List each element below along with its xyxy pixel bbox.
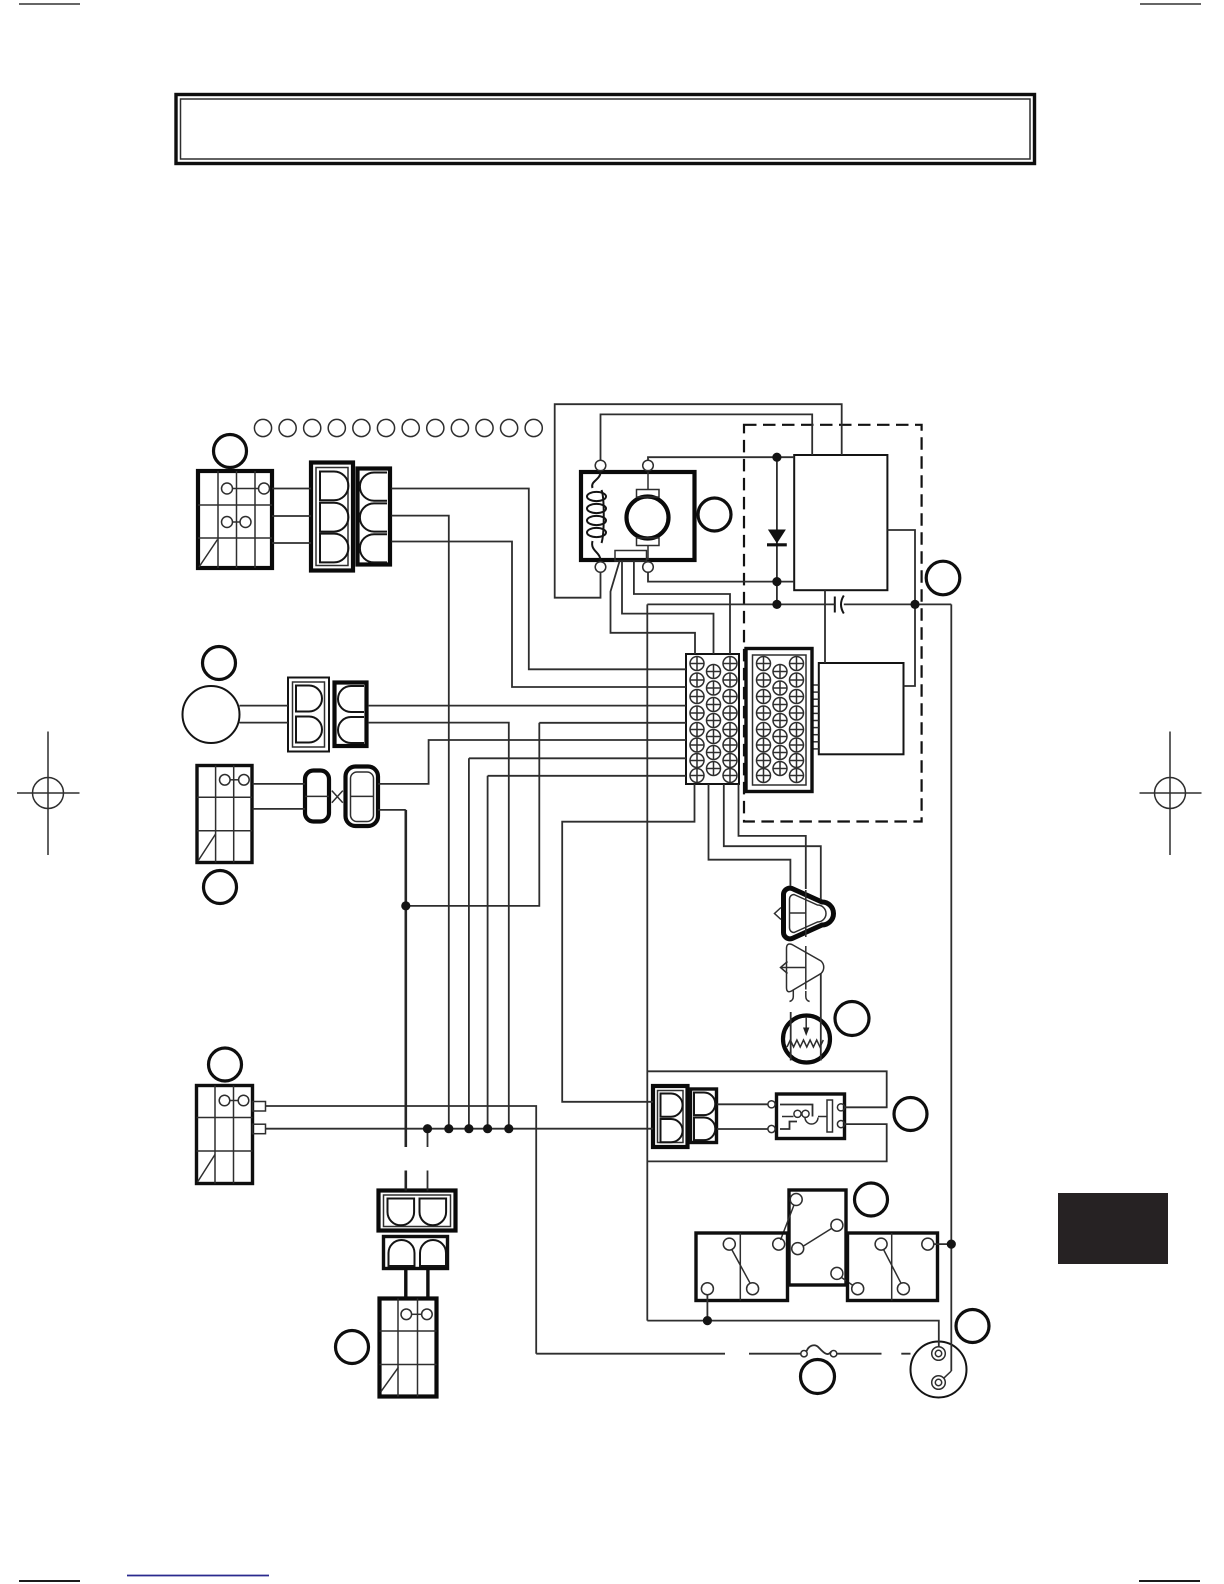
wire armature top to rectifier: [648, 457, 794, 460]
key switch box SW1: [198, 471, 272, 568]
label circle 7 (relay): [894, 1098, 927, 1131]
label circle 4 (horn): [203, 647, 236, 680]
wire J4 to relay: [717, 1104, 768, 1129]
wire armature bottom to rectifier: [648, 572, 794, 581]
crop mark bottom-left: [19, 1580, 80, 1582]
junction dot right trunk: [947, 1240, 956, 1249]
wire block A to buzzer right: [724, 784, 821, 1061]
capacitor C1: [835, 596, 844, 614]
junction dot brake return: [401, 901, 410, 910]
field coil: [587, 472, 606, 561]
connector J3 male (rounded 2-pin): [346, 767, 379, 827]
connector J1 male (3-pin): [358, 469, 391, 565]
junction dots bus row: [423, 1124, 432, 1133]
crop mark bottom-right: [1139, 1580, 1200, 1582]
junction dot diode bottom: [772, 600, 781, 609]
label circle 8 (forward-reverse switch): [209, 1048, 242, 1081]
buzzer BZ2 (thin triangle): [781, 944, 824, 1002]
diode D1: [767, 457, 787, 604]
connector J3 female (rounded 2-pin): [305, 771, 329, 822]
junction dot battery bus: [703, 1316, 712, 1325]
solenoid switch center box: [781, 1190, 854, 1286]
connector J2 male (2-pin): [335, 683, 367, 747]
switch box SW4: [380, 1299, 437, 1397]
brush leads: [647, 472, 649, 490]
indicator lamp row (12 bulbs): [254, 419, 542, 436]
wire horn bottom trunk: [368, 723, 509, 1129]
label circle 12 (starter): [956, 1310, 989, 1343]
wire solenoid right to trunk: [934, 1243, 951, 1245]
wire motor field top loop: [601, 414, 813, 460]
buzzer BZ1 (thick rounded triangle): [775, 888, 834, 939]
wire FR trunk 406: [404, 810, 407, 1191]
connector J5 male (2-pin, horizontal): [384, 1237, 448, 1269]
wire J1 pin3 to block A: [392, 542, 687, 688]
junction dot diode top: [772, 453, 781, 462]
crop mark top-right: [1140, 3, 1201, 5]
wire block A to buzzer mid: [739, 784, 806, 889]
wire terminal block slant to A: [611, 561, 696, 654]
crop mark top-left: [19, 3, 80, 5]
wire brake bottom stub: [378, 809, 406, 811]
wire J5 to SW4: [406, 1269, 428, 1299]
wire right trunk: [950, 604, 952, 1371]
terminal circles MG: [595, 460, 653, 572]
registration mark left: [17, 732, 80, 856]
wire relay loop top: [647, 1071, 886, 1107]
bowtie contact mark: [332, 791, 343, 803]
connector J1 female (3-pin): [311, 463, 353, 571]
registration mark right: [1140, 732, 1202, 856]
connector J4 male (2-pin): [691, 1089, 717, 1143]
wire solenoid left down: [706, 1295, 708, 1321]
horn: [183, 686, 240, 743]
wire block A 776 down: [488, 776, 686, 1129]
black tab (page index): [1058, 1193, 1168, 1264]
armature: [627, 497, 669, 539]
wire block A 758 down: [469, 758, 686, 1128]
label circle 5 (brake switch): [204, 871, 237, 904]
brush top: [637, 490, 660, 498]
label circle 11 (fuse): [801, 1360, 835, 1394]
wiring junction block A: [686, 654, 739, 784]
switch box SW3: [197, 1086, 266, 1184]
controller box: [819, 663, 904, 754]
label circle 3 (regulator): [926, 561, 960, 595]
connector J5 female (2-pin, horizontal): [379, 1191, 456, 1231]
brush bottom: [637, 538, 660, 546]
label circle 6 (resistor): [835, 1002, 869, 1036]
label circle 2 (motor): [698, 498, 731, 531]
wire controller right: [904, 604, 916, 686]
wire brake return to block A: [406, 723, 686, 906]
wire key SW1 to J1 pins: [272, 489, 311, 544]
generator / motor box MG: [581, 472, 695, 560]
wire motor field bottom loop: [555, 404, 842, 598]
label circle 9 (solenoid bank): [855, 1183, 888, 1216]
controller comb pins: [812, 685, 819, 749]
wire center trunk 647: [646, 604, 648, 1320]
dashed enclosure (control module): [744, 425, 922, 822]
wire rectifier to controller: [824, 590, 826, 663]
wire J1 pin2 trunk down: [392, 516, 449, 1129]
wire horn top to block A: [368, 705, 686, 707]
wire resistor chord: [790, 1012, 792, 1061]
fuse F1: [801, 1345, 837, 1357]
wire terminal block to A right: [634, 561, 730, 654]
solenoid switch left box: [696, 1233, 788, 1301]
variable resistor R1: [783, 1016, 830, 1063]
wire rectifier right stub: [887, 530, 915, 604]
relay RL1: [768, 1094, 845, 1139]
solenoid switch right box: [848, 1233, 938, 1301]
wire SW3 tab2 bus: [266, 1128, 654, 1130]
starter receptacle: [911, 1342, 967, 1398]
connector J2 female (2-pin): [288, 678, 329, 752]
rectifier box: [794, 455, 887, 590]
wire block A to buzzer1: [709, 784, 791, 886]
junction dot capacitor right: [910, 600, 919, 609]
wire brake top to block A: [378, 740, 686, 784]
wire J1 pin1 to block A: [392, 489, 687, 670]
label circle 1 (key switch): [214, 435, 247, 468]
terminal block: [615, 551, 647, 562]
wire SW3 tab1 to fuse: [266, 1106, 537, 1354]
wire relay loop bottom: [647, 1124, 886, 1161]
wire horn to J2: [240, 706, 289, 723]
wire fuse line: [536, 1353, 910, 1355]
wire capacitor net: [647, 603, 951, 605]
wire terminal block to A mid: [622, 561, 714, 654]
wire battery bus to starter: [647, 1321, 939, 1347]
title box (empty): [176, 95, 1035, 164]
label circle 10 (accelerator switch): [336, 1331, 369, 1364]
wire SW2 to J3: [253, 784, 306, 809]
switch box SW2 (brake): [197, 766, 252, 863]
junction dot diode mid: [772, 577, 781, 586]
wire tap 427: [427, 1129, 429, 1191]
wiring junction block B: [746, 649, 812, 792]
blue fold mark bottom-left: [127, 1575, 269, 1577]
wire block A col1 bottom: [562, 784, 694, 1102]
connector J4 female (2-pin): [653, 1086, 688, 1147]
